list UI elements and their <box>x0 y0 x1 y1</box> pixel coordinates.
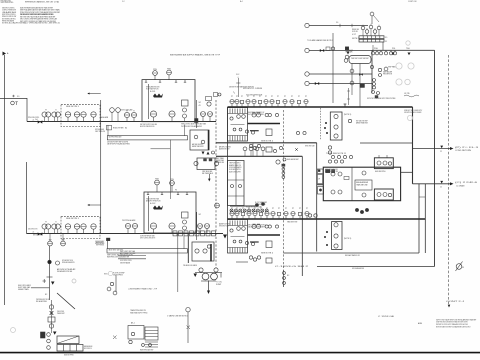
svg-text:22: 22 <box>440 187 442 189</box>
svg-text:SEE NOTE 5: SEE NOTE 5 <box>66 218 79 220</box>
svg-text:DWG PSI PRESS: DWG PSI PRESS <box>113 275 123 277</box>
svg-text:( ) INSTRUMENT TRAIN B ONLY: ( ) INSTRUMENT TRAIN B ONLY - TYP <box>128 287 158 290</box>
svg-text:PT: PT <box>248 208 250 210</box>
svg-text:LINE DWG PSI REF TEMP DOWN PSI: LINE DWG PSI REF TEMP DOWN PSI <box>107 141 128 143</box>
svg-text:STD: STD <box>104 274 108 276</box>
svg-text:41: 41 <box>199 105 201 107</box>
svg-text:TRAIN TRAIN SUPPLY PIPING: TRAIN TRAIN SUPPLY PIPING <box>130 312 148 315</box>
svg-text:PT: PT <box>292 208 294 210</box>
svg-text:CONT ON: CONT ON <box>408 1 417 3</box>
svg-text:CL DRAIN: CL DRAIN <box>456 184 465 187</box>
svg-text:C 1953 GE: C 1953 GE <box>378 316 395 318</box>
svg-text:E-101: E-101 <box>150 91 156 93</box>
svg-text:SUMP: SUMP <box>216 284 222 286</box>
svg-text:1F: 1F <box>318 179 320 181</box>
svg-text:B-4: B-4 <box>240 1 243 3</box>
svg-text:COND RETURN: COND RETURN <box>455 150 472 152</box>
svg-text:REF PRESS: REF PRESS <box>96 244 104 246</box>
svg-text:PT: PT <box>242 208 244 210</box>
svg-text:E-102: E-102 <box>150 203 156 205</box>
svg-text:PSI PRESS INST FLOW: PSI PRESS INST FLOW <box>36 299 50 301</box>
svg-text:PT: PT <box>305 96 307 98</box>
svg-text:TEMP VENT DOWN TEMP INST: TEMP VENT DOWN TEMP INST <box>351 58 369 60</box>
svg-text:NOTES: ALL VALVES NORMALLY OPE: NOTES: ALL VALVES NORMALLY OPEN UNLESS N… <box>2 22 60 25</box>
svg-text:PT: PT <box>241 96 243 98</box>
svg-text:H: H <box>378 25 379 27</box>
svg-text:PT: PT <box>259 96 261 98</box>
svg-text:LV 235: LV 235 <box>404 93 410 95</box>
svg-text:22: 22 <box>440 151 442 153</box>
svg-text:CONT 2-J: CONT 2-J <box>446 301 464 303</box>
svg-text:PT: PT <box>272 208 274 210</box>
svg-text:H: H <box>370 24 371 26</box>
svg-text:SEE NOTE 5: SEE NOTE 5 <box>66 106 79 108</box>
svg-text:PT: PT <box>231 96 233 98</box>
svg-text:PSI PIPING REF PSI ALARM HEATE: PSI PIPING REF PSI ALARM HEATER <box>181 125 202 128</box>
svg-text:PIPING TRAIN CONTROL: PIPING TRAIN CONTROL <box>1 0 12 2</box>
svg-text:PSI VALVE LINE VALVE: PSI VALVE LINE VALVE <box>183 264 198 267</box>
svg-text:PRESS REF NOTE: PRESS REF NOTE <box>383 74 392 76</box>
svg-text:PT: PT <box>271 96 273 98</box>
svg-text:PT: PT <box>254 208 256 210</box>
svg-text:PT: PT <box>291 96 293 98</box>
svg-text:PSL: PSL <box>392 48 395 50</box>
svg-text:DWG DOWN: DWG DOWN <box>57 311 64 313</box>
svg-text:PT: PT <box>236 208 238 210</box>
svg-text:(NOTE 9): (NOTE 9) <box>344 238 352 240</box>
svg-text:TEMP DWG SHUT: TEMP DWG SHUT <box>229 163 241 165</box>
svg-text:TO FLARE HEADER SEE NOTE 3: TO FLARE HEADER SEE NOTE 3 <box>307 39 333 42</box>
svg-text:C-2: C-2 <box>122 1 125 3</box>
svg-text:FLOW TEMP TEMP: FLOW TEMP TEMP <box>255 202 267 204</box>
svg-text:VENT SHUT FLOW: VENT SHUT FLOW <box>219 226 229 228</box>
svg-text:AK-1: AK-1 <box>131 322 135 325</box>
svg-text:VENT DOWN FLOW: VENT DOWN FLOW <box>84 348 92 350</box>
svg-text:2" SAMPLE LINE SEE NOTE 10: 2" SAMPLE LINE SEE NOTE 10 <box>167 315 188 318</box>
svg-text:TRAIN SEE LINE: TRAIN SEE LINE <box>356 184 368 187</box>
svg-text:INST INST SUPPLY SEE LINE: INST INST SUPPLY SEE LINE <box>140 124 157 126</box>
svg-text:PT: PT <box>285 208 287 210</box>
svg-text:INSTRUMENT AIR SUPPLY HEADER -: INSTRUMENT AIR SUPPLY HEADER - SEE NOTE … <box>170 54 221 57</box>
svg-text:PT: PT <box>236 96 238 98</box>
svg-text:NOTE 6: NOTE 6 <box>113 128 127 130</box>
svg-text:PT: PT <box>277 96 279 98</box>
svg-text:(NOTE 9): (NOTE 9) <box>344 114 352 116</box>
svg-text:ASM: ASM <box>418 322 422 325</box>
svg-text:PT: PT <box>298 96 300 98</box>
svg-text:PT: PT <box>278 208 280 210</box>
svg-text:PT: PT <box>266 208 268 210</box>
svg-text:PT: PT <box>247 96 249 98</box>
svg-text:H: H <box>366 28 367 30</box>
svg-text:PT: PT <box>299 208 301 210</box>
svg-text:SUPPLY CONTROL VENT LINE PSI: SUPPLY CONTROL VENT LINE PSI <box>140 238 155 240</box>
svg-text:V-17: V-17 <box>352 34 356 36</box>
svg-text:PT: PT <box>253 96 255 98</box>
svg-text:H: H <box>374 28 375 30</box>
svg-text:NOTE 2: NOTE 2 <box>352 38 359 40</box>
svg-text:V-9: V-9 <box>336 22 338 24</box>
svg-text:PRESS SEE: PRESS SEE <box>352 29 359 31</box>
svg-text:SHUT DWG INST FLOW SHUT: SHUT DWG INST FLOW SHUT <box>248 225 266 227</box>
svg-text:SEE NOTE 4: SEE NOTE 4 <box>261 253 273 255</box>
svg-text:PSI PSI VALVE TRAIN PRESS AIR: PSI PSI VALVE TRAIN PRESS AIR PSI ALARM … <box>20 13 54 16</box>
svg-text:PT: PT <box>265 96 267 98</box>
svg-text:PT: PT <box>231 208 233 210</box>
svg-text:PT: PT <box>260 208 262 210</box>
svg-text:V-12: V-12 <box>236 74 239 76</box>
svg-text:FLOW FLOW TEMP: FLOW FLOW TEMP <box>113 273 125 275</box>
svg-text:C-1953-G SH 2: C-1953-G SH 2 <box>275 266 308 268</box>
svg-text:FLOW CONTROL CONTROL: FLOW CONTROL CONTROL <box>120 260 132 262</box>
svg-text:REFERENCE DRAWINGS - SEE LIST: REFERENCE DRAWINGS - SEE LIST 127 A4 <box>25 1 59 4</box>
svg-text:PT: PT <box>306 208 308 210</box>
svg-text:H: H <box>362 25 363 27</box>
svg-text:PT: PT <box>284 96 286 98</box>
svg-text:FLOW LINE: FLOW LINE <box>352 31 358 33</box>
svg-text:TEMP PRESS PIPING: TEMP PRESS PIPING <box>1 2 14 4</box>
svg-text:NOTE SEE GAS FLOW VENT FLOW AL: NOTE SEE GAS FLOW VENT FLOW ALARM SEE CO… <box>436 325 471 328</box>
svg-text:(C) 2 DR-6: (C) 2 DR-6 <box>455 182 479 184</box>
svg-text:SHUT SUPPLY REF REF PRESS: SHUT SUPPLY REF REF PRESS <box>248 114 264 116</box>
svg-text:35: 35 <box>462 267 464 269</box>
svg-text:SEE NOTE 4: SEE NOTE 4 <box>261 141 273 143</box>
svg-text:PIPING DOWN CONTROL: PIPING DOWN CONTROL <box>28 117 39 119</box>
svg-text:VENT VENT LINE: VENT VENT LINE <box>305 146 315 148</box>
svg-text:FROM K.O. DRUM: FROM K.O. DRUM <box>243 88 262 90</box>
